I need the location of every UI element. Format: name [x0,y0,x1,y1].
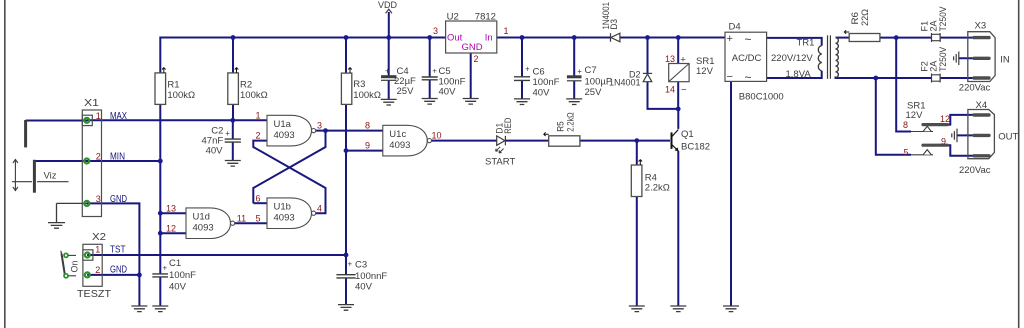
wire probe1 to X1 pin1 [26,120,87,122]
value 7812 [475,12,496,23]
svg-text:220Vac: 220Vac [959,82,991,93]
label U2 [447,12,459,23]
connector X3 pin1 [974,36,989,39]
label R4 [645,172,657,183]
label VDD [378,0,398,10]
bridge ac top pin mark [745,33,752,47]
svg-text:R5: R5 [556,121,566,132]
resistor R4 [631,165,642,197]
svg-text:U1c: U1c [389,129,406,140]
svg-text:Q1: Q1 [681,129,694,140]
diode D3 (series on rail) [611,33,620,42]
value 220V/12V [771,53,813,64]
probe electrode 2 [33,160,36,193]
svg-text:R6: R6 [850,12,860,25]
svg-text:D4: D4 [729,21,741,32]
svg-text:8: 8 [903,120,908,130]
value 2A F1 (rotated) [929,21,939,32]
label R6 (rotated) [850,12,860,25]
wire MIN net [87,160,161,162]
wire C2 top [232,120,234,139]
value R4 [645,182,670,193]
svg-text:Viz: Viz [44,171,57,182]
capacitor C7 plates (electrolytic) [567,77,582,81]
svg-text:U1a: U1a [274,119,292,130]
node R4 base [634,138,639,143]
label R3 [353,79,365,90]
node rail C6 [520,35,525,40]
svg-text:X2: X2 [92,231,106,243]
bridge minus pin mark [727,71,733,83]
label X2 [92,231,106,243]
svg-text:40V: 40V [533,88,551,99]
wire R4 bottom to ground [636,197,638,307]
node relay bottom [676,107,681,112]
svg-text:2: 2 [96,152,101,162]
ground under R4 [629,306,645,312]
svg-text:+: + [348,260,353,269]
wire R5 to Q1 base [580,140,670,142]
connector X1 body [82,110,101,217]
LED D1 [496,136,506,153]
wire TR1 primary top to R6 [836,37,850,39]
svg-text:12: 12 [940,114,950,124]
label R1 [167,80,179,91]
value 2A F2 (rotated) [929,61,939,72]
value 1N4001 of D2 [609,78,641,88]
wire bridge ac top to TR1 [767,38,822,46]
svg-text:+: + [577,67,582,76]
svg-text:8: 8 [365,121,370,131]
net label MIN [110,152,125,163]
capacitor C6 plates [514,77,530,81]
net label GND [110,194,127,205]
svg-text:X3: X3 [975,21,987,32]
node F1 branch [894,35,899,40]
svg-text:100kΩ: 100kΩ [167,90,195,101]
bridge plus pin mark [727,33,733,45]
frame border right [1018,0,1020,328]
svg-text:~: ~ [745,70,752,84]
pin number SR1-13 [665,54,675,64]
resistor R1 marker arrow [162,68,166,73]
svg-text:4093: 4093 [274,130,295,141]
svg-text:C7: C7 [585,65,597,76]
pin number U1c-10 [432,131,442,141]
op-amp U1d gate body [186,208,235,239]
switch On pad top [64,253,76,257]
label D1 (rotated) [495,123,505,134]
value C3 [355,271,387,282]
svg-text:GND: GND [110,265,127,276]
connector X1 pin1 square [82,115,92,125]
label X3 [975,21,987,32]
svg-text:4: 4 [317,203,322,213]
resistor R3 [341,73,351,104]
svg-text:220V/12V: 220V/12V [771,53,813,64]
resistor R2 [228,73,239,105]
wire U1c pin9 [346,150,383,152]
svg-text:C6: C6 [533,67,545,78]
pin number X2-1 [95,245,100,255]
wire bridge ac bottom to TR1 [767,71,822,78]
wire U1c out to LED D1 [427,140,497,142]
pin number SR1-12 [940,114,950,124]
svg-text:5: 5 [903,147,908,157]
wire cross U1b-out to U1a-pin2 [253,141,325,214]
svg-text:3: 3 [96,194,101,204]
connector X3 pin2 [974,57,989,60]
svg-text:2.2kΩ: 2.2kΩ [645,182,670,193]
ground under C5 [422,99,438,105]
fuse F1 [932,33,941,42]
wire U1d pin12 [160,232,186,234]
svg-text:−: − [681,85,687,96]
svg-text:U2: U2 [447,12,459,23]
svg-text:X1: X1 [84,97,99,109]
svg-text:OUT: OUT [998,132,1018,143]
node X2 GND [137,273,142,278]
pin number X1-2 [96,152,101,162]
node rail C7 [572,35,577,40]
pin name In [485,33,493,44]
wire C1 bottom to ground [159,277,161,306]
ground stub wire at X1 pin3 [57,203,87,222]
pin number U1b-5 [255,213,260,223]
voltage C4 [397,86,415,97]
pin number U1d-11 [237,213,246,223]
svg-text:12V: 12V [906,110,924,121]
node TST C3 [344,253,349,258]
svg-text:TST: TST [110,245,126,256]
svg-text:13: 13 [166,203,176,213]
svg-text:+: + [525,65,530,74]
earth symbol at X3 [954,52,959,66]
svg-text:Out: Out [447,33,463,44]
value 12V contacts [906,110,924,121]
resistor R6 [849,34,880,42]
ground under X1-GND net [131,306,147,312]
connector X2 body [83,244,102,286]
wire cross U1a-out to U1b-pin6 [253,131,325,204]
pin number X1-3 [96,194,101,204]
svg-text:2A: 2A [929,61,939,72]
value T250V F1 (rotated) [938,7,948,32]
svg-text:40V: 40V [355,282,373,293]
value B80C1000 [739,91,784,102]
net label MAX [110,111,127,122]
label D4 [729,21,741,32]
label X4 [976,100,988,111]
node rail D2 [645,35,650,40]
voltage C3 [355,282,373,293]
connector X4 pin1 [974,113,989,116]
wire U1d out to U1b pin5 [232,222,267,224]
plus mark C3 [348,260,353,269]
svg-text:2.2kΩ: 2.2kΩ [566,112,576,132]
label F2 (rotated) [920,61,930,72]
svg-text:4093: 4093 [193,222,214,233]
op-amp U1c gate body [383,125,432,156]
ground under C1 [152,306,168,312]
pin number U1c-8 [365,121,370,131]
label SR1 coil [696,56,714,67]
node MIN R1 [158,159,163,164]
resistor R5 [549,136,580,146]
wire R4 top [636,141,638,165]
svg-text:1N4001: 1N4001 [601,2,611,30]
svg-text:9: 9 [941,137,946,147]
wire Q1 emitter to ground [677,151,679,306]
label Q1 [681,129,694,140]
resistor R4 marker arrow [639,160,643,165]
svg-text:40V: 40V [439,87,457,98]
pin number SR1-8 [903,120,908,130]
pin number U1a-1 [255,110,260,120]
relay contact 5-9 fixed terminal [911,150,933,155]
wire contact 12 to X4 pin1 [948,115,974,125]
svg-text:9: 9 [365,141,370,151]
svg-text:14: 14 [665,84,675,94]
value 220Vac X4 [959,165,991,176]
plus mark C6 [525,65,530,74]
label TR1 [797,38,815,49]
switch On lever [61,251,65,275]
wire TR1 primary bottom to F2 to X3 pin3 [836,77,975,79]
value C4 [394,76,416,87]
svg-text:+: + [163,263,168,272]
svg-text:12: 12 [166,223,176,233]
wire D1 to R5 [506,140,549,142]
svg-text:6: 6 [255,193,260,203]
wire R6 to F1 to X3 pin1 [880,37,974,39]
svg-text:22Ω: 22Ω [860,9,870,26]
value 12V coil [696,66,714,77]
wire X1 GND to down [87,203,140,275]
value R5 (rotated) [566,112,576,132]
relay minus mark [681,85,687,96]
plus mark C4 [385,67,390,76]
pin number U1c-9 [365,141,370,151]
node MAX C2 [230,118,235,123]
wire relay coil bottom [677,82,679,109]
wire C6 top [521,37,523,77]
value BC182 [681,142,710,153]
switch On pad bottom [64,274,76,278]
wire C7 top [573,37,575,77]
svg-text:100kΩ: 100kΩ [240,90,268,101]
svg-text:+: + [225,129,230,138]
wire R3 top [345,37,347,74]
bridge ac bottom pin mark [745,70,752,84]
value C5 [439,77,466,88]
svg-text:AC/DC: AC/DC [732,53,762,64]
label R5 (rotated) [556,121,566,132]
ground under C4 [381,99,397,105]
wire U2 GND pin [470,53,472,99]
svg-text:11: 11 [237,213,246,223]
label D3 (rotated) [609,19,619,30]
op-amp U2 7812 body [446,21,497,53]
pin number U1b-6 [255,193,260,203]
water level line [12,181,69,183]
value C6 [533,77,560,88]
wire relay coil top [677,37,679,64]
plus mark C5 [432,66,437,75]
svg-text:100nF: 100nF [533,77,560,88]
svg-text:RED: RED [503,117,513,133]
svg-text:100nF: 100nF [169,270,196,281]
transformer TR1 primary coil [836,38,839,78]
node U1a out [323,128,328,133]
value R2 [240,90,268,101]
svg-text:GND: GND [462,42,483,53]
wire contact 9 to X4 pin3 [948,145,974,156]
wire TST net [87,254,346,256]
connector X2 pin1 square [83,250,93,260]
svg-text:2: 2 [95,265,100,275]
capacitor C3 plates [336,275,355,278]
probe electrode 1 [24,120,27,147]
svg-text:1.8VA: 1.8VA [786,69,812,80]
wire R2 top [232,37,234,73]
svg-text:C1: C1 [169,258,181,269]
voltage C5 [439,87,457,98]
svg-text:GND: GND [110,194,127,205]
svg-text:100µF: 100µF [585,76,612,87]
ground under C3 [338,305,354,311]
op-amp U1a gate body [267,115,316,146]
connector X2 pin2 pad [85,272,90,277]
wire R3 bottom to C3 [345,104,347,274]
svg-text:100kΩ: 100kΩ [353,90,381,101]
pin number U2-3 [433,26,438,36]
svg-text:X4: X4 [976,100,988,111]
label Viz [44,171,57,182]
svg-text:40V: 40V [206,146,224,157]
wire Q1 collector [677,109,679,129]
svg-text:+: + [680,54,686,65]
svg-text:+: + [385,67,390,76]
water level double arrow [13,160,18,191]
bridge D4 body [725,32,767,81]
value 1N4001 of D3 (rotated) [601,2,611,30]
ground under C7 [566,99,582,105]
op-amp U1b gate body [267,198,316,229]
wire U1b pin6 stub [253,202,267,204]
relay contact 8-12 fixed terminal [911,126,933,131]
svg-text:−: − [727,71,733,83]
value C2 [202,135,224,146]
connector X4 body [968,110,995,159]
plus mark C2 [225,129,230,138]
transistor Q1 BC182 [672,130,679,152]
svg-text:U1d: U1d [193,211,210,222]
node rail R3 [344,35,349,40]
svg-text:MIN: MIN [110,152,125,163]
ground under U2 GND [463,99,479,105]
value C1 [169,270,196,281]
frame border left [4,0,6,328]
node rail R2 [231,35,236,40]
plus mark C1 [163,263,168,272]
wire VDD rail left segment [160,37,445,39]
relay contact 8-12 movable blade [923,123,948,126]
pin number U2-1 [504,26,509,36]
label SR1 contacts [907,100,925,111]
svg-text:1: 1 [96,111,101,121]
svg-text:~: ~ [745,33,752,47]
voltage C2 [206,146,224,157]
svg-text:4093: 4093 [274,212,295,223]
pin name GND [462,42,483,53]
voltage C7 [585,87,603,98]
wire C5 top [429,37,431,78]
capacitor C2 plates [225,139,241,142]
plus mark C7 [577,67,582,76]
ground under C2 [225,161,241,167]
resistor R1 [155,73,166,105]
svg-text:C3: C3 [355,259,367,270]
value 220Vac X3 [959,82,991,93]
net label GND X2 [110,265,127,276]
pin number U1a-3 [317,121,322,131]
label D2 [629,69,641,79]
svg-text:T250V: T250V [938,7,948,32]
svg-text:T250V: T250V [938,47,948,72]
wire U1a out to U1c pin8 [316,130,383,132]
wire X1 GND to ground [138,275,140,306]
fuse F2 [932,74,941,83]
wire R2 bottom to MAX [232,104,234,120]
svg-text:B80C1000: B80C1000 [739,91,784,102]
power VDD arrow [386,9,392,13]
svg-text:3: 3 [433,26,438,36]
label X1 [84,97,99,109]
svg-text:1: 1 [95,245,100,255]
wire R1 top [159,37,161,73]
pin number U1a-2 [255,131,260,141]
svg-text:1N4001: 1N4001 [609,78,641,88]
pin number U1b-4 [317,203,322,213]
label F1 (rotated) [920,21,930,32]
wire U1d pin13 [160,212,186,214]
svg-text:U1b: U1b [274,201,291,212]
node U1c pin9 [344,148,349,153]
svg-text:4093: 4093 [389,140,410,151]
value 1.8VA [786,69,812,80]
ground at X1 probe [48,223,65,229]
pin number U1d-13 [166,203,176,213]
connector X1 pin1 pad [84,118,89,123]
label C4 [397,66,409,77]
wire C3 bottom to ground [345,278,347,305]
capacitor C1 plates [152,274,168,277]
label OUT [998,132,1018,143]
pin number SR1-14 [665,84,675,94]
value R1 [167,90,195,101]
wire C4 bottom to ground [388,81,390,100]
ground under Q1 emitter [670,306,686,312]
pin number U1d-12 [166,223,176,233]
svg-text:TR1: TR1 [797,38,815,49]
pin number X2-2 [95,265,100,275]
wire rail U2-In to D3 [497,37,611,39]
pin number SR1-5 [903,147,908,157]
svg-text:TESZT: TESZT [77,288,112,300]
label C5 [439,66,451,77]
svg-text:1: 1 [504,26,509,36]
